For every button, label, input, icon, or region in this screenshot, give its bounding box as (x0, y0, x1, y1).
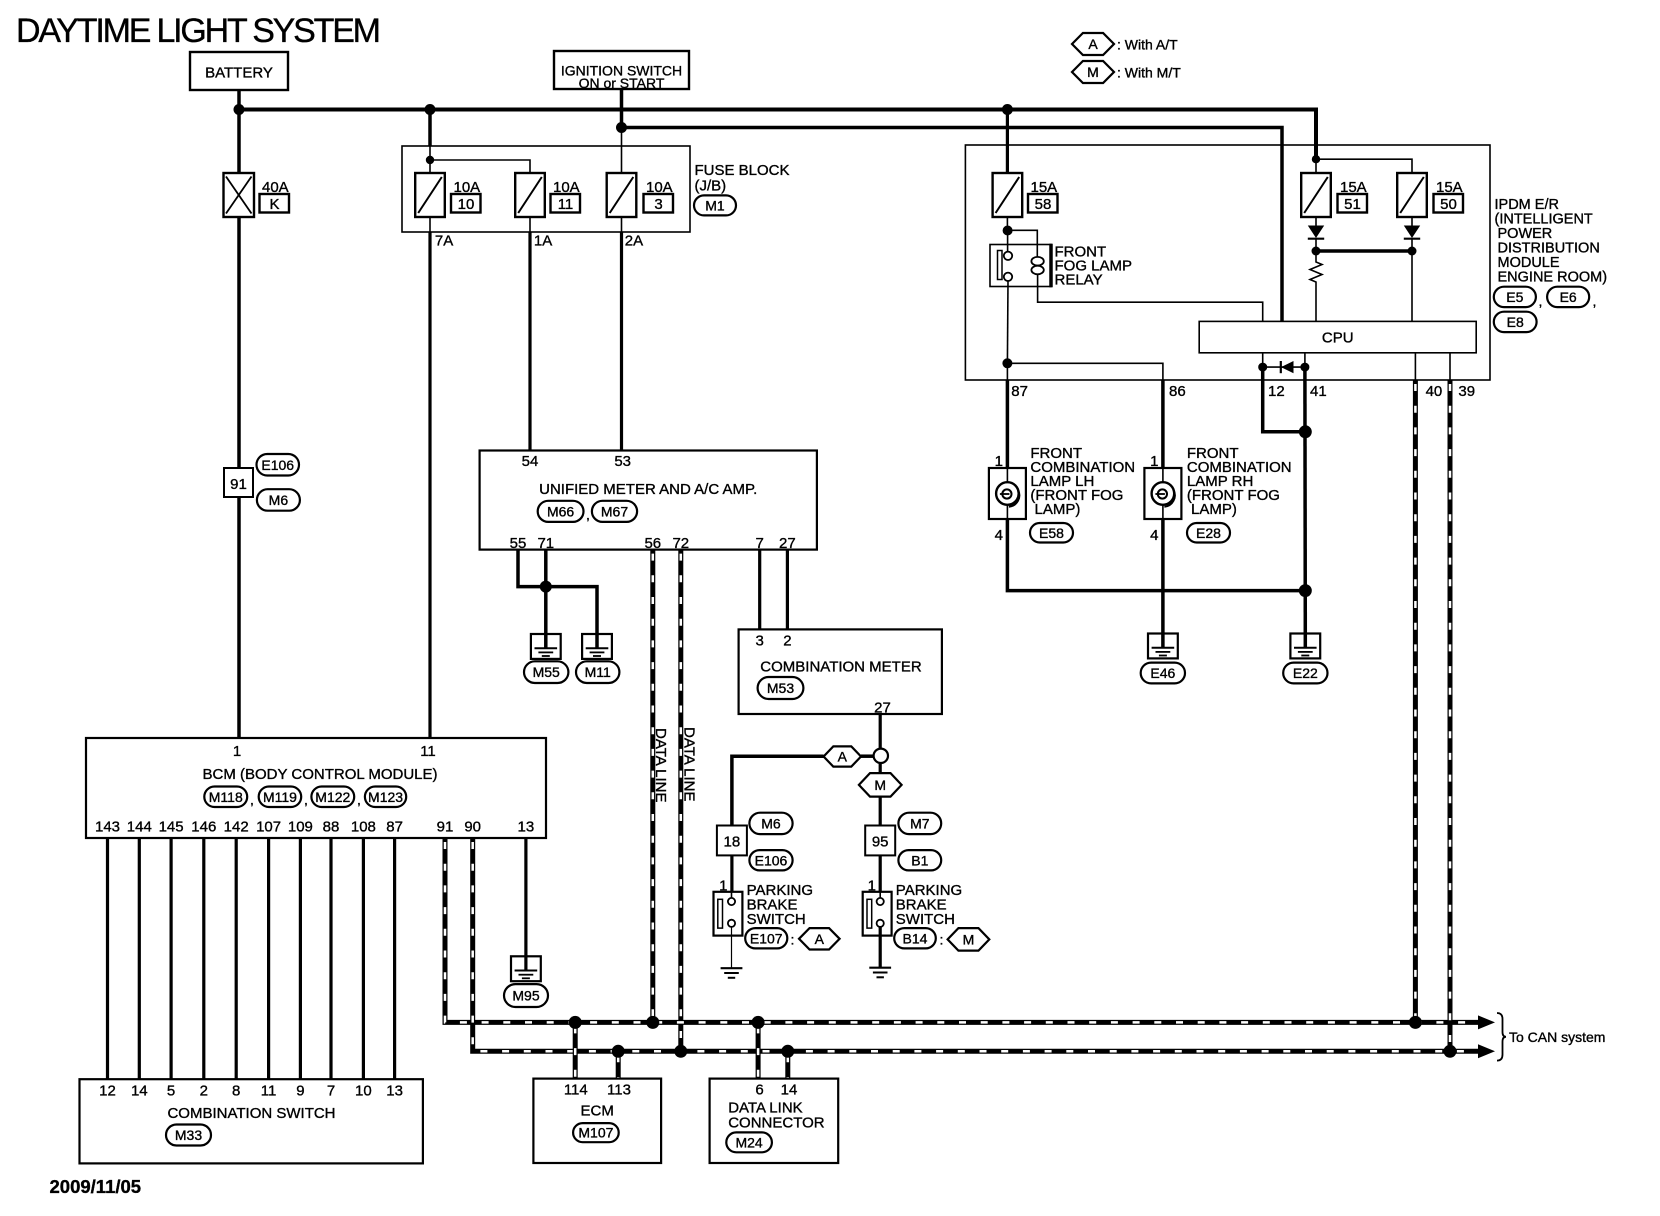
svg-text:LAMP): LAMP) (1035, 501, 1081, 518)
CAN arrow 1 (1478, 1015, 1495, 1029)
svg-text:E58: E58 (1039, 525, 1064, 541)
svg-text:SWITCH: SWITCH (896, 911, 955, 928)
label 15A / 51 (1338, 179, 1368, 213)
svg-text:M118: M118 (209, 789, 243, 805)
svg-text:18: 18 (724, 834, 741, 851)
ground M95 (511, 956, 541, 981)
svg-text:RELAY: RELAY (1055, 272, 1103, 289)
pin 56 (644, 535, 661, 552)
pin 27 bottom (874, 700, 891, 717)
svg-text:E22: E22 (1293, 665, 1318, 681)
svg-text:2009/11/05: 2009/11/05 (50, 1176, 142, 1197)
svg-text:A: A (838, 749, 848, 765)
pin 113 (607, 1082, 631, 1099)
connector M53 (758, 677, 804, 699)
pin 2 (783, 633, 791, 650)
connector M24 (726, 1132, 772, 1152)
svg-text:8: 8 (232, 1083, 240, 1100)
wire M/T branch upper (879, 763, 882, 773)
svg-text:142: 142 (224, 819, 249, 836)
connector M123 (365, 787, 406, 808)
svg-text:E6: E6 (1560, 289, 1577, 305)
svg-text:,: , (1593, 293, 1597, 309)
svg-text:,: , (1539, 293, 1543, 309)
svg-text:M119: M119 (263, 789, 297, 805)
svg-text:To CAN system: To CAN system (1509, 1029, 1605, 1045)
wire CPU pin41 stub (1304, 353, 1306, 367)
pin 39 (1458, 383, 1475, 400)
wire bus1 battery feed (237, 110, 1316, 160)
BCM bottom pin labels (95, 819, 534, 836)
pin 55 (510, 535, 527, 552)
connector M6 (257, 489, 300, 511)
battery B+ source (190, 52, 288, 90)
connector E8 (1494, 312, 1537, 332)
wire 2A (622, 217, 644, 451)
svg-text:E8: E8 (1507, 314, 1524, 330)
svg-text:E106: E106 (261, 457, 294, 473)
parking brake switch B14 box (863, 892, 892, 936)
svg-text:2A: 2A (625, 233, 643, 250)
wire between diode outputs (1316, 249, 1412, 253)
connector M7 (95) (898, 813, 941, 834)
node open circle branch (874, 749, 888, 763)
pin 72 (672, 535, 689, 552)
wire A/T branch (732, 756, 874, 825)
svg-text:,: , (586, 507, 590, 523)
node junction pin41 (1300, 363, 1309, 372)
svg-text:4: 4 (1150, 527, 1158, 544)
pin 41 (1310, 383, 1327, 400)
wire fuse50 branch to CPU (1411, 251, 1413, 321)
pin 40 (1426, 383, 1443, 400)
svg-text:A: A (815, 931, 825, 947)
svg-text:M: M (963, 931, 975, 947)
svg-text:BATTERY: BATTERY (205, 65, 273, 82)
wire BCM pin13 to ground M95 (524, 838, 527, 971)
wire CAN drop ECM 114 (573, 1022, 578, 1078)
pin 4 lamp LH (995, 527, 1003, 544)
label 40A / K (260, 179, 290, 213)
svg-text:ENGINE ROOM): ENGINE ROOM) (1498, 270, 1608, 286)
connector M95 (504, 984, 548, 1007)
pin 54 (522, 453, 539, 470)
svg-text:B1: B1 (911, 852, 928, 868)
wire M/T branch lower (879, 797, 882, 826)
svg-text:M66: M66 (547, 503, 574, 519)
pin 27 top (779, 535, 796, 552)
svg-text:12: 12 (1268, 383, 1285, 400)
svg-text:5: 5 (167, 1083, 175, 1100)
wire CAN bus H (BCM 90) (473, 838, 1479, 1051)
svg-text:53: 53 (614, 453, 631, 470)
svg-text:55: 55 (510, 535, 527, 552)
svg-text:M33: M33 (175, 1127, 202, 1143)
pin 71 (537, 535, 554, 552)
svg-text:COMBINATION SWITCH: COMBINATION SWITCH (167, 1105, 335, 1122)
wire fusible link to BCM (237, 217, 241, 738)
pin 1 E107 (719, 878, 727, 895)
svg-text:M: M (874, 777, 886, 793)
pin 1 lamp RH (1150, 453, 1158, 470)
connector E5 (1494, 287, 1543, 309)
svg-text:10: 10 (355, 1083, 372, 1100)
fuse 10A #11 (515, 173, 545, 217)
wire to relay coil (1008, 230, 1038, 258)
date (50, 1176, 142, 1197)
svg-text:12: 12 (99, 1083, 116, 1100)
svg-text:E107: E107 (750, 930, 783, 946)
svg-text:50: 50 (1440, 196, 1457, 213)
ground M55 (531, 634, 561, 659)
svg-text:M24: M24 (735, 1134, 762, 1150)
svg-text:ON or START: ON or START (579, 75, 665, 91)
wire CAN drop pin39 (1448, 380, 1453, 1051)
label data line 56 (652, 728, 669, 802)
svg-text:13: 13 (386, 1083, 403, 1100)
svg-text:114: 114 (564, 1082, 588, 1099)
svg-text:54: 54 (522, 453, 539, 470)
wire to fuse50 (1316, 159, 1412, 173)
svg-text:E46: E46 (1150, 665, 1175, 681)
svg-text:CPU: CPU (1322, 330, 1354, 347)
svg-text:1: 1 (719, 878, 727, 895)
svg-text:DAYTIME LIGHT SYSTEM: DAYTIME LIGHT SYSTEM (16, 12, 379, 50)
svg-text:: With M/T: : With M/T (1117, 65, 1181, 81)
svg-text:3: 3 (756, 633, 764, 650)
legend symbol M (With M/T) (1072, 61, 1181, 83)
svg-text:7: 7 (756, 535, 764, 552)
svg-text:107: 107 (256, 819, 281, 836)
wire fuse58 feed (1006, 110, 1009, 174)
svg-text:71: 71 (537, 535, 554, 552)
pin 86 (1169, 383, 1186, 400)
symbol A hexagon branch (824, 746, 861, 766)
svg-text:91: 91 (230, 476, 247, 493)
svg-text:39: 39 (1458, 383, 1475, 400)
combination switch box (80, 1079, 423, 1163)
wire pin71 to ground M55 (544, 550, 548, 648)
wire pin12 down (1263, 367, 1306, 432)
label data link connector (728, 1100, 825, 1132)
wire branch to ground M11 (546, 587, 597, 648)
wire CAN drop pin40 (1413, 380, 1418, 1022)
wire 1A (530, 217, 552, 451)
label data line 72 (681, 727, 698, 801)
node junction relay output (1002, 358, 1012, 368)
lamp LH bulb (996, 482, 1019, 507)
svg-text:,: , (357, 792, 361, 808)
svg-text:11: 11 (558, 196, 574, 213)
label BCM (202, 766, 437, 783)
svg-text:56: 56 (644, 535, 661, 552)
svg-text:3: 3 (654, 196, 662, 213)
svg-text::: : (791, 932, 795, 948)
pin 87 (1011, 383, 1028, 400)
svg-text:: With A/T: : With A/T (1117, 37, 1178, 53)
connector E28 (1187, 523, 1230, 543)
svg-text:CONNECTOR: CONNECTOR (728, 1115, 825, 1132)
wire B14 to ground (879, 927, 882, 968)
svg-text:87: 87 (1011, 383, 1028, 400)
svg-text:11: 11 (261, 1083, 277, 1100)
wire fuse10 feed inside block (428, 110, 432, 174)
connector M67 (592, 501, 637, 522)
svg-text:27: 27 (779, 535, 796, 552)
svg-text:A: A (1088, 36, 1098, 52)
ground E107 (721, 968, 743, 978)
svg-text:LAMP): LAMP) (1191, 501, 1237, 518)
connector E106 (257, 454, 300, 476)
node junction bus1/IPDM fuse58 drop (1002, 104, 1013, 115)
symbol A hexagon E107 (799, 928, 840, 949)
CPU box (1199, 321, 1476, 352)
svg-text:1: 1 (868, 878, 876, 895)
front combination lamp RH box (1144, 468, 1181, 519)
svg-text:,: , (304, 792, 308, 808)
svg-text:14: 14 (131, 1083, 148, 1100)
svg-text:E106: E106 (755, 852, 788, 868)
wire bus1 to fuse51/50 (1315, 155, 1317, 173)
svg-text:M122: M122 (315, 789, 350, 805)
svg-text:91: 91 (437, 819, 454, 836)
node CAN dots bus1 (569, 1016, 1422, 1029)
svg-text:10: 10 (458, 196, 475, 213)
svg-text:M107: M107 (578, 1125, 613, 1141)
pin 53 (614, 453, 631, 470)
data link connector box (710, 1079, 839, 1163)
svg-text:M123: M123 (368, 789, 403, 805)
node junction bus1/fuse10 drop (425, 104, 436, 115)
wire CPU pin12 stub (1262, 353, 1264, 367)
svg-text:M95: M95 (512, 988, 539, 1004)
connector B14 (894, 928, 943, 948)
node junction diode D1 out (1312, 247, 1321, 256)
symbol M hexagon branch (859, 773, 902, 797)
connector E58 (1030, 523, 1073, 543)
symbol M hexagon B14 (948, 928, 990, 951)
wire relay output to pin86 (1007, 363, 1163, 380)
BCM box (86, 738, 546, 838)
svg-text:M53: M53 (767, 680, 794, 696)
svg-text:SWITCH: SWITCH (747, 911, 806, 928)
svg-text:14: 14 (781, 1082, 798, 1099)
fuse 10A #3 (607, 173, 637, 217)
svg-text:6: 6 (755, 1082, 763, 1099)
combination meter box (739, 629, 942, 714)
fusible link K 40A (224, 173, 255, 217)
wire 7A (430, 217, 453, 738)
pin 114 (564, 1082, 588, 1099)
svg-text:7A: 7A (435, 233, 453, 250)
wire pin87 to lamp LH (1006, 380, 1010, 468)
connector M1 (694, 195, 736, 215)
svg-text:1: 1 (995, 453, 1003, 470)
label IPDM E/R block (1495, 197, 1608, 286)
connector M119 (259, 787, 308, 808)
wire CAN drop DLC 14 (785, 1051, 790, 1078)
wire CPU pin39 stub (1449, 353, 1451, 380)
svg-text:27: 27 (874, 700, 891, 717)
pin 14 (781, 1082, 798, 1099)
label to CAN system (1509, 1029, 1605, 1045)
node junction fuse10/fuse11 feed (426, 156, 434, 164)
node junction fuse51/fuse50 feed (1312, 155, 1320, 163)
front combination lamp LH box (989, 468, 1026, 519)
wire pin86 to lamp RH (1161, 380, 1165, 468)
label FUSE BLOCK (J/B) (695, 162, 790, 195)
wire relay coil to CPU (1038, 274, 1263, 321)
wire meter pin27 down (879, 714, 882, 749)
svg-text:1: 1 (233, 743, 241, 760)
wire 18 to parking brake switch A (730, 855, 733, 891)
relay contact bar (998, 251, 1003, 280)
wire CAN drop ECM 113 (616, 1051, 621, 1078)
relay front fog lamp relay box (990, 244, 1051, 288)
svg-text:41: 41 (1310, 383, 1327, 400)
svg-text:B14: B14 (903, 930, 928, 946)
label front combination lamp RH (1187, 445, 1292, 518)
svg-text:M7: M7 (910, 815, 930, 831)
label 15A / 50 (1434, 179, 1464, 213)
node junction relay contact/coil (1003, 226, 1013, 236)
ECM box (533, 1079, 661, 1163)
ground E22 (1290, 634, 1320, 659)
diode D1 under fuse51 (1308, 217, 1324, 251)
wire CAN bus L (BCM 91) (445, 838, 1479, 1022)
pin 12 (1268, 383, 1285, 400)
wire lamp LH return (1007, 519, 1305, 591)
svg-text:90: 90 (464, 819, 481, 836)
wire pin41 down to ground E22 (1303, 367, 1307, 633)
wire diode D3 link (1263, 366, 1305, 368)
resistor R1 (1310, 251, 1322, 321)
svg-text:DATA LINE: DATA LINE (681, 727, 698, 801)
wire 95 to parking brake switch M (879, 855, 882, 891)
node junction diode D2 out (1408, 247, 1417, 256)
label ECM (581, 1103, 614, 1120)
pin 3 (756, 633, 764, 650)
pin 11 BCM (420, 743, 436, 760)
wire bus2 ignition feed (622, 128, 1283, 322)
svg-text:E5: E5 (1506, 289, 1523, 305)
wire ignition vertical (620, 89, 624, 173)
svg-text:2: 2 (783, 633, 791, 650)
fuse 15A #51 (1301, 173, 1331, 217)
svg-text:,: , (250, 792, 254, 808)
label parking brake switch M (896, 882, 962, 928)
wire relay output to pin87 (1006, 363, 1008, 380)
svg-text:E28: E28 (1196, 525, 1221, 541)
pin 1 BCM (233, 743, 241, 760)
connector E22 (1283, 663, 1327, 684)
connector M107 (573, 1123, 619, 1142)
label 15A / 58 (1028, 179, 1058, 213)
svg-text:1: 1 (1150, 453, 1158, 470)
ground B14 (869, 968, 891, 978)
wire to fuse11 (430, 160, 530, 173)
fuse 15A #50 (1397, 173, 1427, 217)
svg-text:58: 58 (1035, 196, 1052, 213)
label 10A / 11 (551, 179, 581, 213)
IPDM E/R outline (965, 145, 1490, 380)
svg-text::: : (940, 932, 944, 948)
svg-text:108: 108 (351, 819, 376, 836)
label front fog lamp relay (1055, 244, 1133, 289)
wire E107 to ground (731, 927, 733, 968)
connector M118 (204, 787, 254, 808)
svg-text:2: 2 (200, 1083, 208, 1100)
node junction ignition/bus2 (616, 122, 627, 133)
label unified meter (539, 481, 757, 498)
combination switch pin labels (99, 1083, 403, 1100)
svg-text:DATA LINE: DATA LINE (652, 728, 669, 802)
fuse 15A #58 (993, 173, 1023, 217)
wire pin27 to meter (786, 550, 789, 630)
svg-text:4: 4 (995, 527, 1003, 544)
node junction pin12 (1258, 363, 1267, 372)
wire pin55 (518, 550, 546, 587)
connector 95 (865, 826, 895, 856)
node junction lamp return/E22 wire (1299, 584, 1312, 597)
svg-text:143: 143 (95, 819, 120, 836)
pin 1 B14 (868, 878, 876, 895)
svg-text:M55: M55 (533, 664, 560, 680)
svg-text:1A: 1A (534, 233, 552, 250)
lamp RH bulb (1152, 482, 1175, 507)
node CAN dots bus2 (612, 1045, 1457, 1058)
wire fuse58 to relay (1006, 217, 1008, 234)
connector M33 (166, 1125, 211, 1146)
svg-text:144: 144 (127, 819, 152, 836)
ground M11 (582, 634, 612, 659)
svg-text:113: 113 (607, 1082, 631, 1099)
connector B1 (95) (898, 850, 941, 870)
svg-text:109: 109 (288, 819, 313, 836)
connector 91 E106/M6 (224, 468, 253, 497)
relay contact pins (1004, 234, 1012, 363)
node junction battery/bus1 (234, 104, 245, 115)
label front combination lamp LH (1030, 445, 1135, 518)
CAN arrow 2 (1478, 1044, 1495, 1058)
svg-text:13: 13 (518, 819, 535, 836)
svg-text:ECM: ECM (581, 1103, 614, 1120)
svg-text:(J/B): (J/B) (695, 178, 727, 195)
parking brake switch E107 box (714, 892, 743, 936)
connector 18 (717, 826, 747, 856)
label parking brake switch A (747, 882, 813, 928)
svg-text:M6: M6 (761, 815, 781, 831)
wires BCM to combination switch (108, 838, 395, 1079)
svg-text:72: 72 (672, 535, 689, 552)
wire CAN drop DLC 6 (756, 1022, 761, 1078)
connector M122 (311, 787, 360, 808)
wire pin7 to meter (758, 550, 761, 630)
fuse block J/B outline (402, 146, 690, 232)
svg-text:9: 9 (296, 1083, 304, 1100)
svg-text:95: 95 (872, 834, 889, 851)
svg-text:145: 145 (159, 819, 184, 836)
diode D3 pointing left (1281, 361, 1294, 373)
title (16, 12, 379, 50)
svg-text:40: 40 (1426, 383, 1443, 400)
wire data line 72 (678, 550, 683, 1052)
svg-text:11: 11 (420, 743, 436, 760)
wire CPU pin40 stub (1414, 353, 1416, 380)
pin 7 (756, 535, 764, 552)
pin 6 (755, 1082, 763, 1099)
svg-text:FUSE BLOCK: FUSE BLOCK (695, 162, 790, 179)
